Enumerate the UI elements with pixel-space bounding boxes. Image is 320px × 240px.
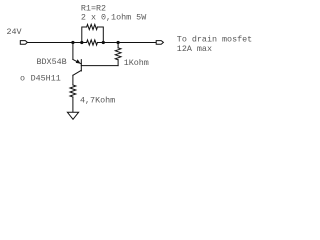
svg-text:To drain mosfet: To drain mosfet (177, 34, 252, 44)
svg-text:24V: 24V (7, 27, 22, 37)
svg-text:2 x 0,1ohm 5W: 2 x 0,1ohm 5W (81, 13, 147, 23)
svg-text:4,7Kohm: 4,7Kohm (80, 95, 115, 105)
svg-text:BDX54B: BDX54B (37, 57, 67, 67)
svg-text:D45H11: D45H11 (31, 74, 61, 84)
svg-text:1Kohm: 1Kohm (124, 58, 149, 68)
svg-text:12A max: 12A max (177, 44, 212, 54)
svg-text:o: o (20, 74, 25, 84)
